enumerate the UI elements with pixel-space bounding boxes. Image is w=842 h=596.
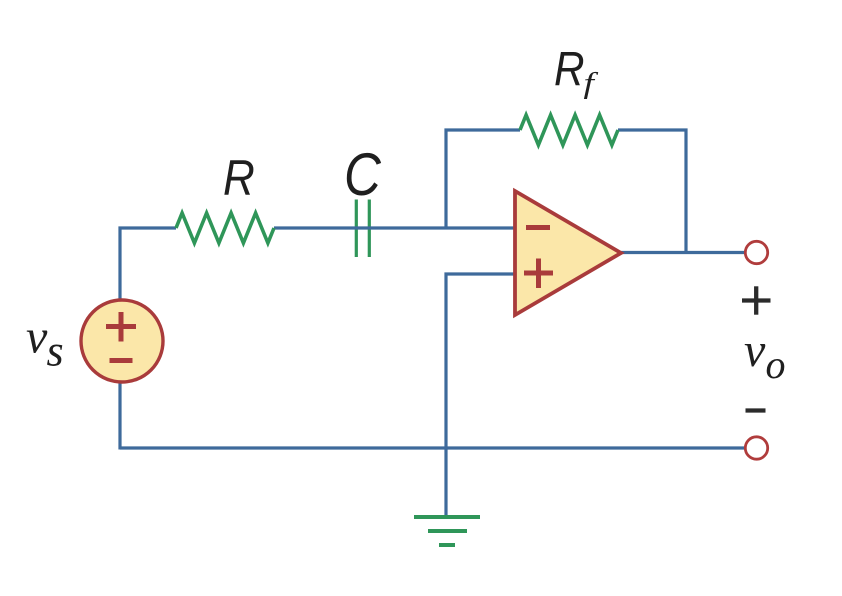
output plus sign <box>742 286 771 314</box>
output terminal top <box>745 241 767 263</box>
svg-text:o: o <box>766 342 786 387</box>
op-amp inverting input minus sign <box>526 225 550 230</box>
label Rf <box>554 42 599 100</box>
svg-text:C: C <box>344 141 382 208</box>
source minus sign <box>110 358 133 363</box>
wire: source bottom down to bottom rail <box>118 383 121 450</box>
wire: bottom rail from source to bottom output terminal <box>120 446 745 449</box>
voltage source vs <box>81 300 163 382</box>
label vo <box>744 324 786 387</box>
output terminal bottom <box>745 437 767 459</box>
output minus sign <box>746 408 766 412</box>
resistor Rf <box>520 115 618 145</box>
resistor R <box>176 213 274 243</box>
capacitor C <box>356 200 369 258</box>
op-amp noninverting input plus sign <box>524 259 553 289</box>
svg-text:R: R <box>554 42 585 96</box>
svg-text:v: v <box>744 324 766 377</box>
wire: op-amp output to top output terminal <box>621 251 745 254</box>
wire: resistor R right lead through capacitor C to op-amp inverting input <box>274 226 515 229</box>
wire: feedback left vertical from inverting input node up to Rf left lead <box>446 130 520 230</box>
wire: op-amp noninverting input left then down through bottom rail to ground <box>446 274 515 516</box>
svg-text:R: R <box>223 149 255 205</box>
svg-text:f: f <box>584 67 599 100</box>
ground <box>414 517 480 545</box>
op-amp U1 <box>515 191 621 315</box>
source plus sign <box>106 312 136 342</box>
label vs <box>26 311 64 376</box>
svg-text:v: v <box>26 311 48 364</box>
wire: left vertical from top rail down to source top, with corner to resistor R lead <box>120 228 176 300</box>
wire: Rf right lead and right vertical down to output node <box>618 130 686 253</box>
svg-text:s: s <box>47 327 64 376</box>
